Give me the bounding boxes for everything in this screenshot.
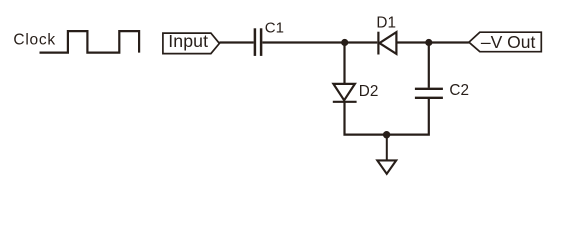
clock waveform (40, 31, 140, 52)
svg-text:D2: D2 (359, 83, 379, 100)
wire D1 to output tag (396, 41, 469, 43)
wire node A down to D2 (343, 43, 345, 84)
ground (377, 160, 396, 173)
svg-text:–V Out: –V Out (481, 32, 536, 52)
diode D1 (377, 32, 379, 55)
output tag (469, 32, 541, 52)
node G junction dot (383, 131, 390, 138)
node B junction dot (425, 39, 432, 46)
input tag (163, 33, 220, 54)
wire node B down to C2 (428, 43, 430, 88)
svg-text:C2: C2 (449, 82, 469, 99)
svg-text:D1: D1 (376, 15, 396, 32)
node A junction dot (341, 39, 348, 46)
capacitor C2 (415, 88, 443, 90)
diode D2 (333, 84, 355, 100)
wire input to C1 (219, 41, 253, 43)
svg-text:Clock: Clock (13, 32, 56, 49)
capacitor C1 (254, 28, 257, 56)
wire D2 to bottom rail to C2 (345, 98, 429, 135)
svg-text:C1: C1 (265, 20, 284, 37)
wire dot to ground (386, 135, 388, 161)
wire C1 to D1 (262, 41, 377, 43)
svg-text:Input: Input (168, 31, 208, 51)
